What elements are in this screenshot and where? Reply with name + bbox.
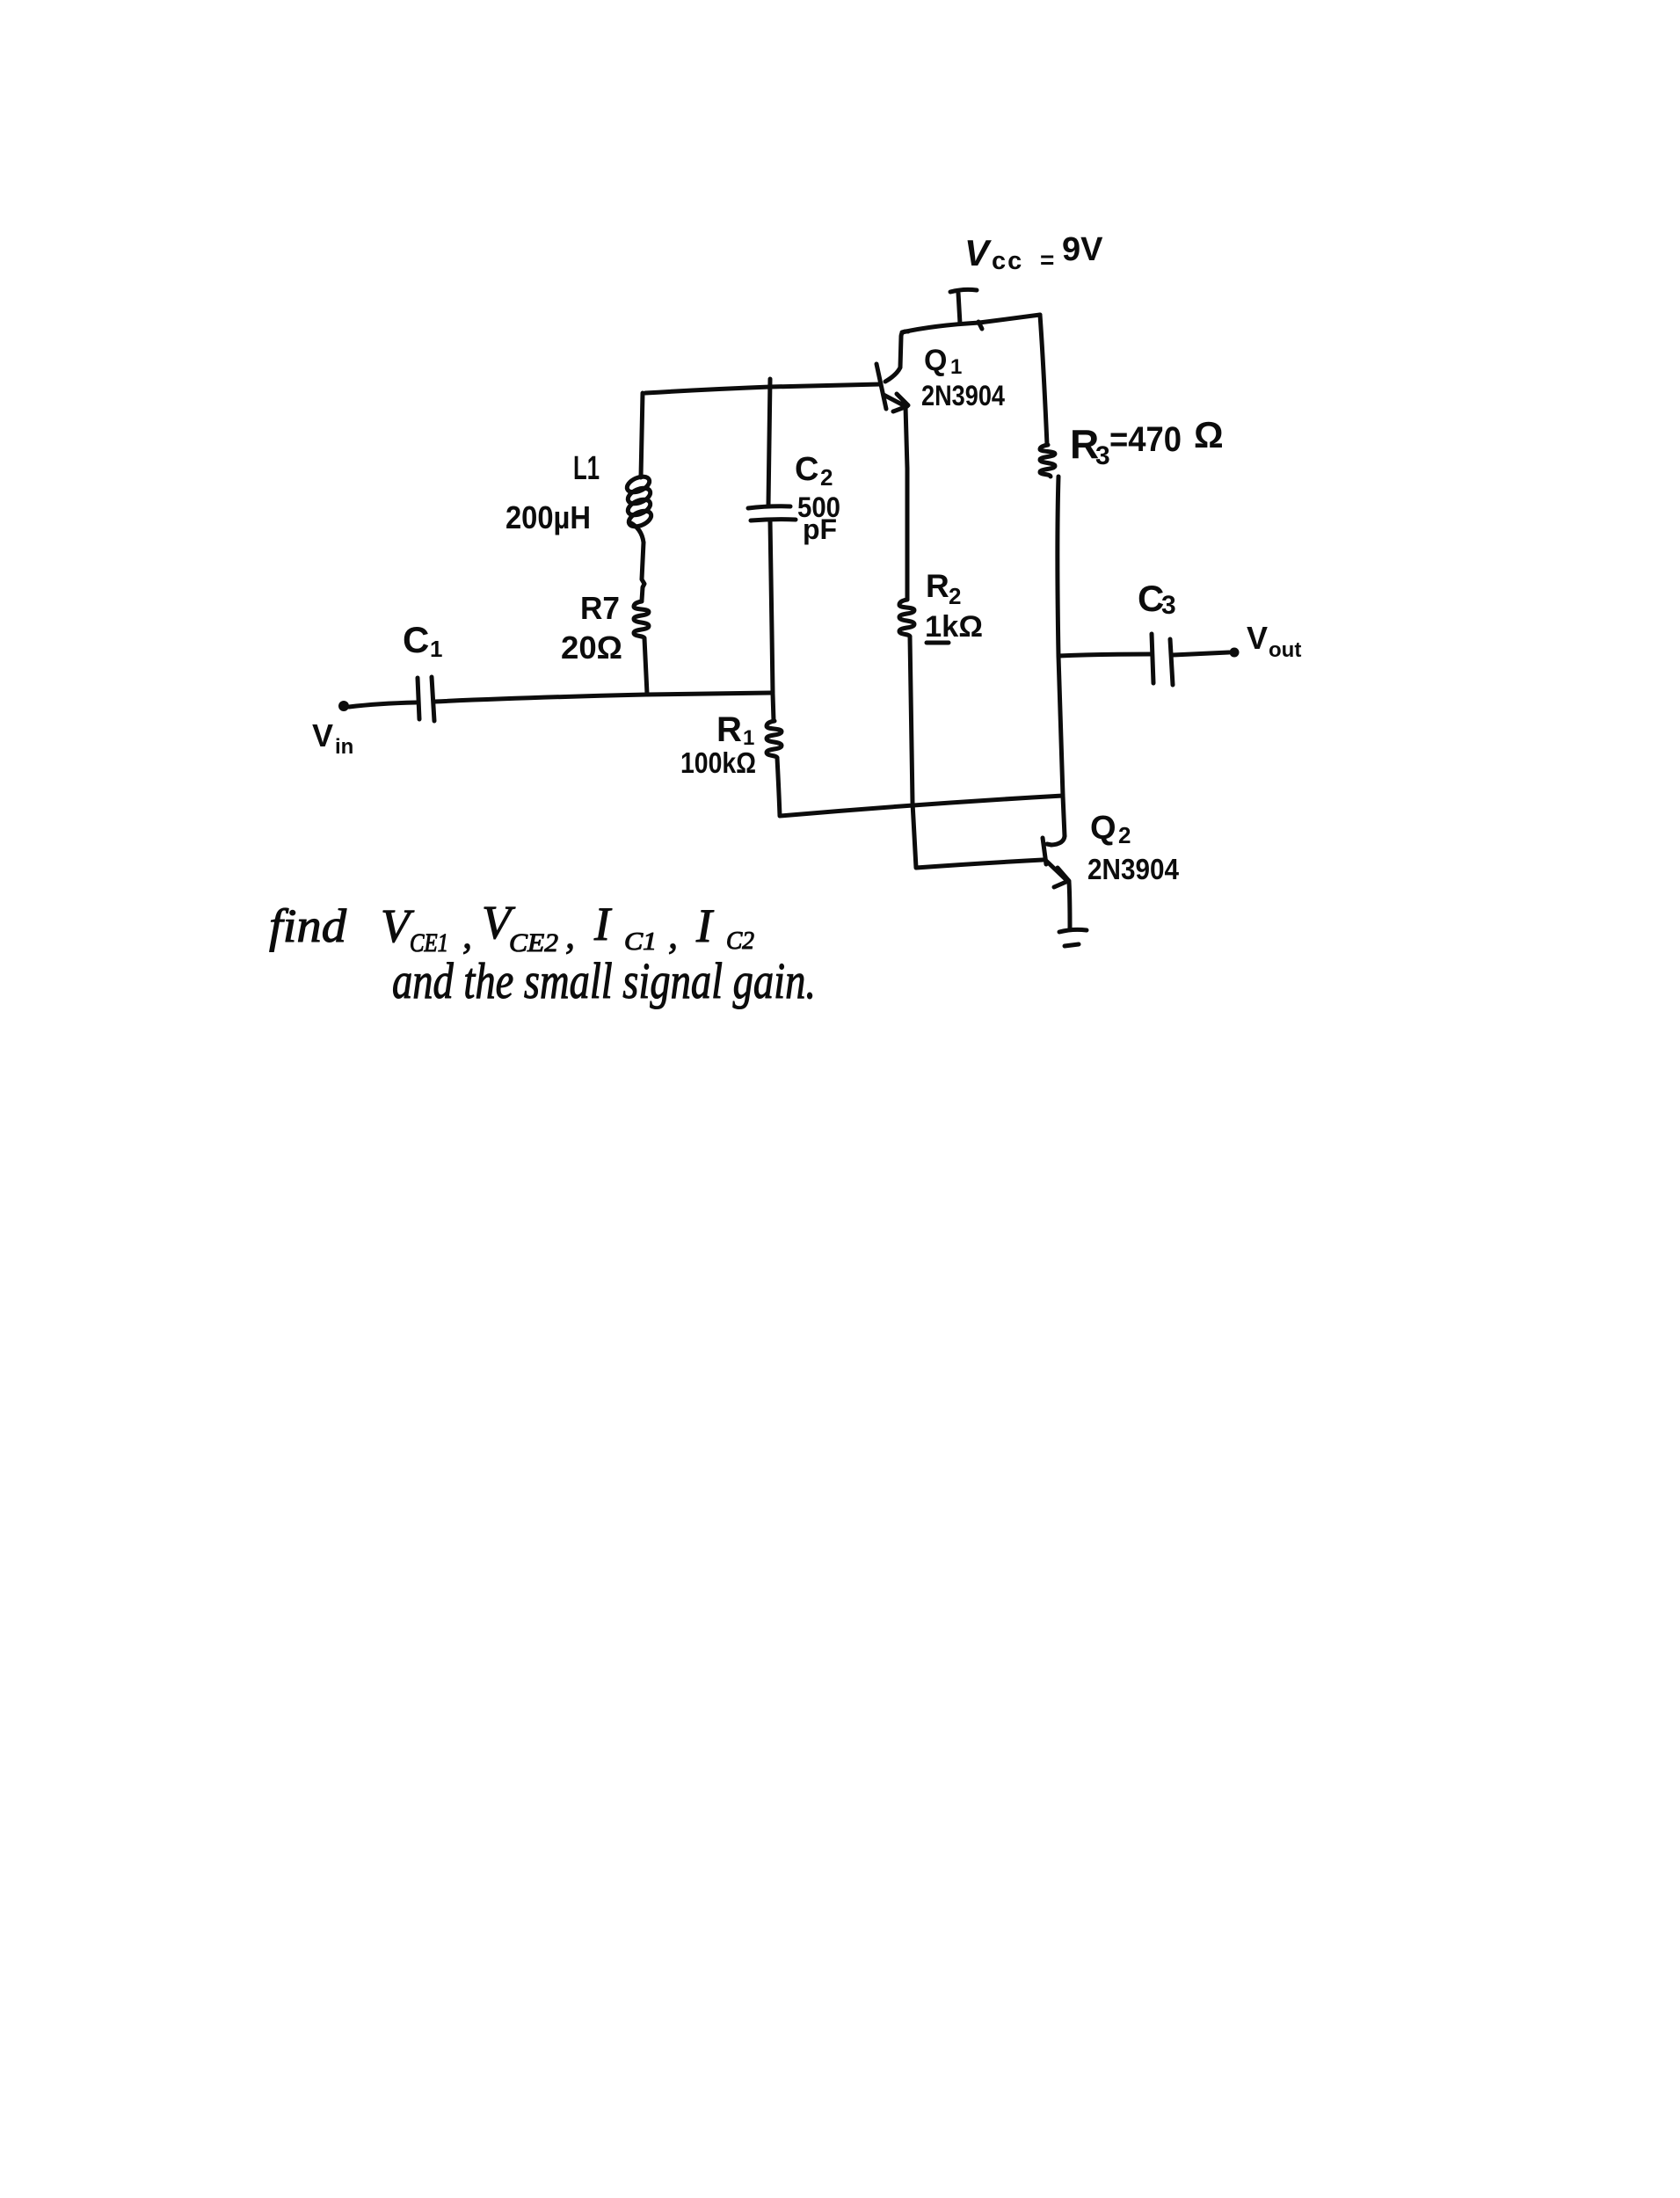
svg-text:I: I [695, 899, 715, 952]
svg-text:,: , [462, 913, 472, 957]
svg-text:C: C [795, 451, 818, 488]
svg-text:I: I [593, 898, 613, 950]
wire C2 bottom drop [770, 520, 773, 693]
label R2 value 1k ohm underlined [925, 610, 983, 644]
wire Q1 emitter to R2 [905, 406, 907, 600]
capacitor C1 [418, 677, 434, 721]
Q2 base bar [1043, 838, 1046, 864]
svg-text:V: V [312, 717, 333, 753]
transistor Q2 [1043, 836, 1069, 887]
svg-text:100kΩ: 100kΩ [680, 746, 756, 779]
label C2 value 500pF [797, 491, 840, 545]
svg-text:,: , [565, 913, 575, 957]
wire C2 top drop [768, 379, 770, 506]
wire R2 to Q2 base [910, 637, 1043, 868]
Q2 emitter stroke with arrow [1046, 861, 1069, 887]
svg-text:Q: Q [924, 344, 947, 377]
question text line 1 [269, 896, 754, 957]
wire L1 top drop [641, 393, 643, 477]
wire output node to C3 [1058, 654, 1151, 656]
svg-text:C: C [1138, 578, 1164, 619]
wire R1 top stub [773, 694, 774, 721]
svg-text:20Ω: 20Ω [561, 630, 622, 666]
wire C3 to Vout [1173, 652, 1229, 655]
wire Q2 emitter to ground [1069, 882, 1070, 929]
svg-text:2: 2 [949, 583, 961, 609]
svg-text:=: = [1040, 246, 1054, 273]
wire R1 bottom to output node [777, 758, 1063, 816]
wire R7 to input rail [644, 638, 647, 694]
resistor R3 [1040, 445, 1055, 477]
wire C1 to junction rail [434, 693, 771, 702]
svg-text:C: C [403, 619, 429, 660]
svg-text:C2: C2 [726, 928, 754, 955]
wire Vin to C1 [349, 702, 416, 707]
Q1 base bar [876, 364, 886, 409]
wire Vcc top rail [902, 315, 1040, 332]
svg-text:R: R [716, 710, 742, 749]
svg-text:pF: pF [803, 513, 837, 545]
label C2 [795, 451, 833, 491]
label C3 [1138, 578, 1176, 620]
svg-text:cc: cc [992, 247, 1023, 275]
svg-text:L1: L1 [573, 450, 600, 487]
svg-text:Ω: Ω [1194, 414, 1224, 455]
capacitor C2 [748, 506, 796, 520]
svg-text:3: 3 [1161, 591, 1176, 620]
label R2 [926, 568, 961, 609]
label Vout [1247, 620, 1301, 662]
inductor L1 [625, 474, 654, 542]
Vcc power symbol [950, 289, 977, 324]
svg-text:V: V [1247, 620, 1268, 656]
label Vin [312, 717, 353, 759]
svg-text:out: out [1269, 638, 1301, 662]
svg-text:2: 2 [820, 464, 833, 491]
svg-text:Q: Q [1090, 810, 1116, 847]
svg-text:find: find [269, 899, 347, 952]
junction tick on Vcc rail [978, 322, 982, 329]
resistor R2 [899, 600, 914, 637]
Q2 collector bend [1047, 836, 1065, 845]
wire R3 collector drop [1040, 315, 1047, 445]
Q1 collector stroke [885, 331, 908, 382]
svg-text:200µH: 200µH [505, 499, 591, 535]
svg-text:and the small signal gain.: and the small signal gain. [392, 952, 816, 1009]
wire base rail (L1/C2 top to Q1 base) [645, 384, 881, 393]
label C1 [403, 619, 442, 662]
svg-text:2N3904: 2N3904 [921, 380, 1005, 411]
svg-text:3: 3 [1095, 441, 1110, 470]
svg-text:V: V [964, 232, 992, 273]
label R3 value [1070, 414, 1224, 470]
svg-text:1kΩ: 1kΩ [925, 610, 983, 644]
svg-text:R: R [926, 568, 949, 604]
node Vout [1230, 648, 1240, 658]
svg-text:9V: 9V [1062, 231, 1103, 268]
label Q1 [924, 344, 962, 379]
Q1 emitter stroke with arrow [884, 394, 908, 411]
ground [1059, 929, 1087, 946]
svg-text:=470: =470 [1109, 420, 1182, 459]
svg-text:2: 2 [1118, 822, 1131, 848]
node Vin [338, 701, 349, 711]
svg-text:,: , [668, 913, 678, 957]
svg-text:in: in [335, 735, 353, 759]
label R1 [716, 710, 754, 750]
net label Vcc = 9V [964, 231, 1103, 275]
wire R3 to output node [1058, 477, 1065, 836]
transistor Q1 [876, 331, 908, 411]
capacitor C3 [1152, 634, 1173, 685]
wire L1 to R7 [642, 542, 644, 600]
svg-text:1: 1 [430, 636, 442, 662]
svg-text:R7: R7 [580, 590, 620, 626]
resistor R1 [767, 721, 782, 758]
label Q2 [1090, 810, 1131, 848]
resistor R7 [634, 601, 649, 638]
svg-text:2N3904: 2N3904 [1087, 853, 1180, 885]
svg-text:1: 1 [950, 355, 962, 379]
